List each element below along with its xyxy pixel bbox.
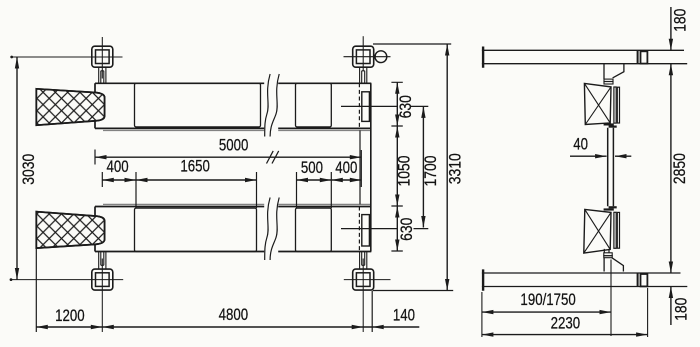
svg-text:1650: 1650 bbox=[180, 157, 210, 176]
svg-text:2850: 2850 bbox=[671, 153, 689, 184]
svg-text:630: 630 bbox=[397, 95, 415, 118]
svg-text:400: 400 bbox=[335, 159, 357, 178]
svg-text:180: 180 bbox=[671, 9, 689, 32]
svg-text:2230: 2230 bbox=[551, 314, 581, 333]
svg-text:5000: 5000 bbox=[219, 136, 249, 155]
svg-text:4800: 4800 bbox=[219, 306, 249, 325]
svg-text:400: 400 bbox=[107, 158, 129, 177]
svg-text:1050: 1050 bbox=[395, 156, 413, 187]
svg-text:140: 140 bbox=[393, 306, 415, 325]
svg-text:40: 40 bbox=[573, 135, 588, 154]
svg-text:1200: 1200 bbox=[55, 307, 85, 326]
svg-text:500: 500 bbox=[301, 159, 323, 178]
svg-text:630: 630 bbox=[398, 218, 416, 241]
svg-text:1700: 1700 bbox=[422, 156, 440, 187]
svg-text:3310: 3310 bbox=[446, 153, 464, 184]
svg-text:180: 180 bbox=[672, 298, 690, 321]
svg-text:3030: 3030 bbox=[20, 154, 38, 185]
svg-text:190/1750: 190/1750 bbox=[520, 290, 575, 309]
